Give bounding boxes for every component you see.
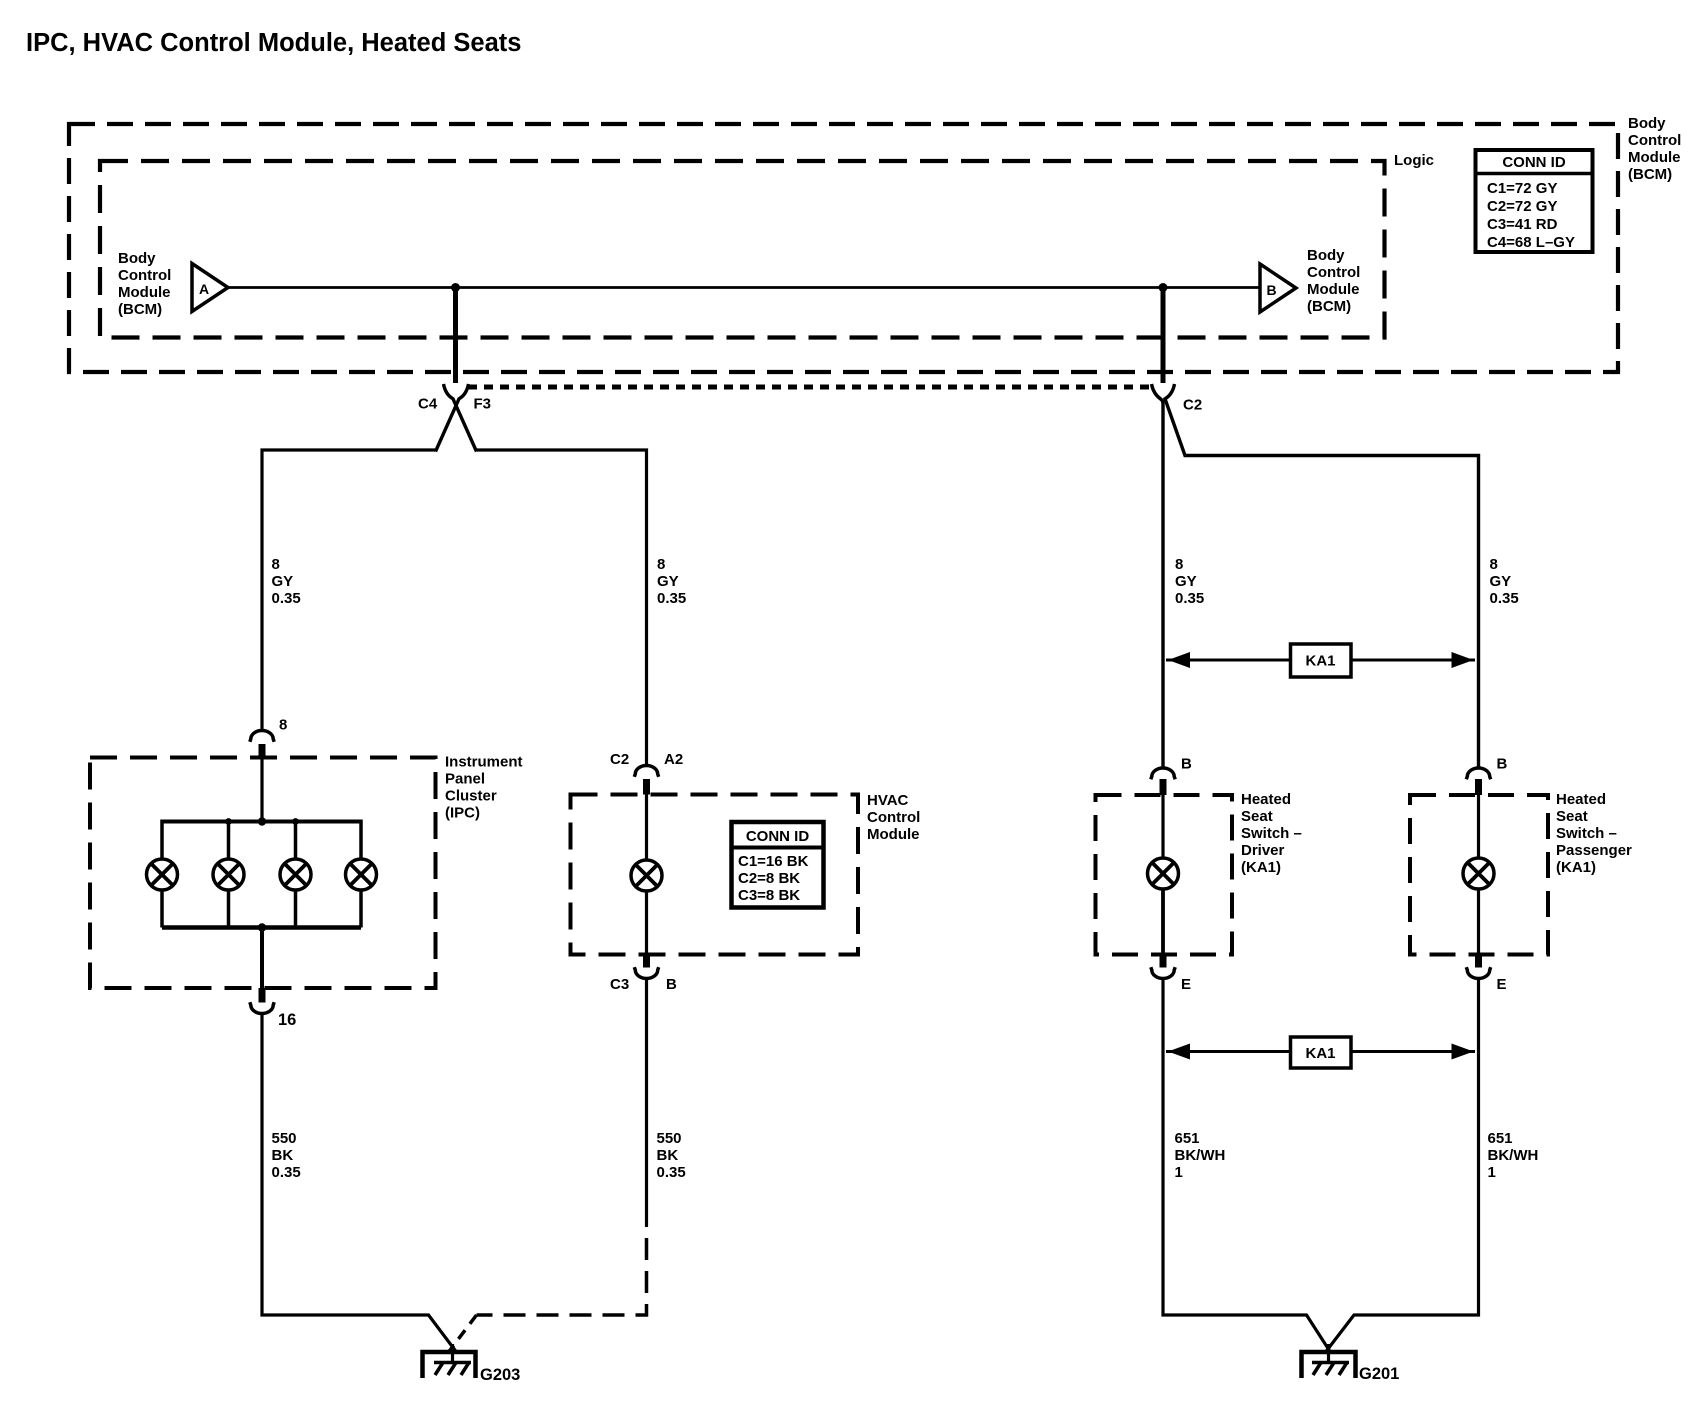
- IPC lamp 4: [346, 859, 377, 890]
- dotted link wire between connectors C4 and C2: [468, 385, 1150, 390]
- KA1 link arrow upper: [1166, 644, 1475, 677]
- wire F3 to HVAC connector A2: [477, 450, 647, 765]
- svg-text:B: B: [666, 976, 677, 993]
- IPC lamp 1: [147, 859, 178, 890]
- BCM CONN ID table: [1476, 150, 1593, 252]
- wire B to passenger lamp: [1477, 795, 1480, 858]
- connector E at driver seat switch: [1151, 955, 1191, 994]
- connector 8 at IPC input: [250, 717, 288, 759]
- HVAC lamp: [631, 860, 662, 891]
- svg-text:A: A: [199, 281, 209, 297]
- svg-text:IPC, HVAC Control Module, Heat: IPC, HVAC Control Module, Heated Seats: [26, 29, 521, 57]
- ground G203: [423, 1344, 521, 1384]
- svg-text:B: B: [1267, 282, 1277, 298]
- wire IPC to ground splice (solid): [262, 1013, 456, 1352]
- svg-text:A2: A2: [664, 751, 683, 768]
- connector C2 (socket with branch): [1152, 384, 1479, 768]
- wire lamp bus to connector 16: [260, 928, 264, 989]
- wire driver lamp to E: [1161, 889, 1165, 955]
- Heated Seat Switch Driver dashed box: [1096, 795, 1233, 955]
- connector B at passenger seat switch: [1466, 756, 1507, 796]
- connector 16 at IPC output: [250, 988, 297, 1029]
- junction dot at C4 drop: [451, 283, 460, 292]
- svg-text:B: B: [1181, 756, 1192, 773]
- svg-text:CONN ID: CONN ID: [1502, 154, 1566, 171]
- svg-text:F3: F3: [474, 396, 492, 413]
- driver seat lamp: [1148, 858, 1179, 889]
- svg-text:CONN ID: CONN ID: [746, 828, 810, 845]
- svg-text:E: E: [1497, 976, 1507, 993]
- junction dots on lamp bus: [225, 817, 299, 931]
- terminal B triangle: [1260, 264, 1296, 312]
- svg-text:KA1: KA1: [1305, 1045, 1335, 1062]
- connector C3/B at HVAC output: [610, 955, 677, 994]
- svg-text:KA1: KA1: [1305, 653, 1335, 670]
- wire C4 to IPC connector 8: [262, 450, 436, 731]
- connector E at passenger seat switch: [1466, 955, 1506, 994]
- connector C4/F3 (crossing wires with socket): [436, 384, 477, 452]
- svg-text:8: 8: [279, 717, 287, 734]
- wire BCM logic to connector C4: [453, 288, 458, 384]
- wire HVAC to ground splice (dashed): [477, 1227, 647, 1315]
- wire passenger E to ground splice: [1326, 980, 1479, 1352]
- svg-text:G201: G201: [1359, 1365, 1399, 1383]
- connector C2/A2 at HVAC input: [610, 751, 683, 795]
- svg-text:E: E: [1181, 976, 1191, 993]
- svg-text:C1=16 BKC2=8 BKC3=8 BK: C1=16 BKC2=8 BKC3=8 BK: [738, 853, 809, 904]
- wire A to B: [228, 286, 1260, 289]
- wire HVAC to splice (solid part): [645, 980, 648, 1227]
- ground G201: [1302, 1344, 1400, 1383]
- svg-text:G203: G203: [480, 1366, 520, 1384]
- svg-text:B: B: [1497, 756, 1508, 773]
- svg-text:C3: C3: [610, 976, 629, 993]
- wire HVAC lamp to C3: [645, 891, 648, 955]
- HVAC Control Module dashed box: [571, 795, 859, 955]
- wire driver E to ground splice: [1163, 980, 1330, 1352]
- IPC lamp bus bottom rail: [162, 925, 361, 930]
- wire BCM logic to connector C2: [1161, 288, 1166, 384]
- svg-text:Logic: Logic: [1394, 152, 1434, 169]
- IPC lamp 2: [213, 859, 244, 890]
- wire A2 to HVAC lamp: [645, 795, 648, 861]
- Instrument Panel Cluster dashed box: [90, 758, 436, 989]
- Body Control Module (BCM) outer dashed box: [69, 124, 1618, 372]
- wire connector 8 to lamp bus: [260, 758, 263, 822]
- svg-text:C2: C2: [1183, 397, 1202, 414]
- Logic inner dashed box: [100, 161, 1385, 338]
- wire B to driver lamp: [1161, 795, 1164, 858]
- wire passenger lamp to E: [1477, 889, 1480, 955]
- passenger seat lamp: [1463, 858, 1494, 889]
- svg-text:C4: C4: [418, 396, 438, 413]
- svg-text:16: 16: [278, 1011, 296, 1029]
- connector B at driver seat switch: [1151, 756, 1192, 796]
- KA1 link arrow lower: [1166, 1037, 1475, 1068]
- HVAC CONN ID table: [732, 822, 824, 908]
- IPC lamp branch wires: [162, 820, 361, 928]
- Heated Seat Switch Passenger dashed box: [1410, 795, 1548, 955]
- IPC lamp 3: [280, 859, 311, 890]
- dashed wire diagonal into G203: [449, 1315, 477, 1352]
- svg-text:C2: C2: [610, 751, 629, 768]
- junction dot at C2 drop: [1159, 283, 1168, 292]
- terminal A triangle: [192, 264, 228, 312]
- IPC lamp bus top rail: [162, 820, 361, 824]
